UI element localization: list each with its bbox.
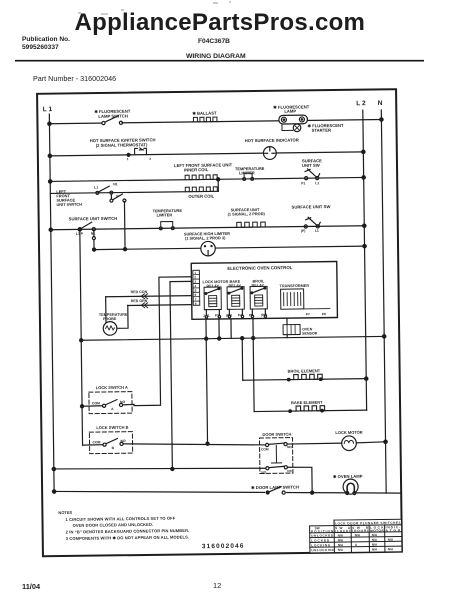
junction mid rung at drop 206: [205, 337, 208, 340]
svg-text:COM: COM: [261, 447, 269, 451]
coil ballast: [192, 111, 218, 122]
svg-text:(1 SIGNAL, 2 PROD 3): (1 SIGNAL, 2 PROD 3): [185, 235, 226, 241]
svg-text:INNER COIL: INNER COIL: [184, 167, 209, 172]
wire broil rung: [243, 379, 366, 381]
wire EOC drop pin3: [218, 319, 220, 338]
svg-text:(P3): (P3): [226, 313, 232, 317]
svg-text:NO: NO: [120, 400, 125, 404]
junction L1 lower rung: [52, 467, 55, 470]
svg-text:✱ DOOR LAMP SWITCH: ✱ DOOR LAMP SWITCH: [251, 485, 299, 491]
switch surface unit switch left: [69, 216, 118, 236]
svg-text:BAKE ELEMENT: BAKE ELEMENT: [291, 400, 323, 405]
svg-text:SURFACE UNIT SWITCH: SURFACE UNIT SWITCH: [69, 216, 118, 222]
wire probe right leg: [117, 305, 128, 328]
svg-text:(DOOR): (DOOR): [352, 529, 368, 533]
wire branch up to rung3: [217, 179, 219, 191]
svg-text:HOT SURFACE INDICATOR: HOT SURFACE INDICATOR: [245, 137, 299, 143]
svg-text:(1 SIGNAL, 2 PROD): (1 SIGNAL, 2 PROD): [228, 211, 266, 216]
svg-text:WIRING DIAGRAM: WIRING DIAGRAM: [186, 53, 246, 60]
svg-text:12: 12: [213, 581, 221, 590]
svg-text:P8: P8: [322, 312, 326, 316]
junction lock motor at L2: [384, 440, 387, 443]
wire L2 rail: [363, 110, 367, 410]
switch fluorescent lamp switch: [94, 109, 131, 125]
svg-text:COM: COM: [92, 401, 100, 405]
heater broil element: [288, 368, 324, 379]
node N label: [378, 100, 383, 107]
header rule: [15, 60, 424, 62]
wire EOC drop to door rung: [206, 319, 208, 443]
junction broil rung at L2: [365, 377, 368, 380]
svg-text:SENSOR: SENSOR: [302, 331, 318, 335]
junction pin3 drop: [218, 337, 221, 340]
node L1 label: [43, 106, 53, 113]
table lock door plunger switch states: [310, 519, 402, 553]
svg-text:L1: L1: [315, 181, 319, 185]
svg-text:L1: L1: [315, 229, 319, 233]
wire EOC pin to vertical drop B: [170, 281, 194, 469]
lamp fluorescent lamp fixture: [273, 104, 310, 130]
lamp surface high limiter indicator: [184, 231, 231, 256]
svg-text:NOTES: NOTES: [58, 510, 72, 515]
svg-text:Publication No.: Publication No.: [22, 36, 70, 43]
svg-text:316002046: 316002046: [202, 543, 245, 551]
svg-text:LOCKING: LOCKING: [311, 543, 331, 547]
switch door switch: [259, 432, 293, 475]
wire broil feeder drop: [241, 338, 244, 380]
resistor temperature probe: [99, 313, 128, 336]
junction mid rung at drop 253: [252, 336, 255, 339]
svg-text:N/A: N/A: [372, 538, 378, 542]
wire EOC drop pin4: [230, 319, 232, 338]
heater bake element: [291, 400, 326, 411]
svg-text:N/A: N/A: [388, 547, 394, 551]
svg-text:LOCK MOTOR: LOCK MOTOR: [335, 430, 362, 435]
svg-text:N/A: N/A: [338, 533, 344, 537]
junction mid rung at drop 241: [241, 337, 244, 340]
relay K2 bake relay: [225, 280, 244, 318]
svg-text:N1: N1: [113, 182, 117, 186]
svg-text:UNIT SW: UNIT SW: [302, 163, 320, 168]
thermal limiter rung3: [235, 166, 265, 181]
svg-text:N/A: N/A: [372, 543, 378, 547]
svg-text:LAMP: LAMP: [284, 109, 296, 114]
wire probe left leg: [105, 297, 107, 322]
svg-text:RELAY: RELAY: [207, 284, 220, 288]
wire rung 1: [49, 120, 381, 124]
svg-text:LOCK SWITCH B: LOCK SWITCH B: [96, 425, 128, 430]
svg-text:RELAY: RELAY: [252, 284, 265, 288]
svg-text:DOOR SWITCH: DOOR SWITCH: [262, 432, 291, 437]
junction drop B at lower rung: [171, 467, 174, 470]
svg-text:(P): (P): [301, 229, 306, 233]
wire EOC pin to vertical drop A: [159, 277, 193, 404]
coil left front surface unit inner coil: [174, 162, 233, 180]
svg-text:LIMITER: LIMITER: [239, 170, 255, 175]
switch surface unit switch right: [292, 204, 331, 233]
wire rung 3: [50, 177, 363, 181]
wire EOC probe lead green: [128, 298, 192, 308]
node L2 label: [356, 100, 366, 107]
junction EOC drop at door rung: [206, 442, 209, 445]
wire left feeder vertical: [80, 229, 83, 445]
junction feeder at mid rung: [80, 339, 83, 342]
relay K3 broil relay: [248, 279, 267, 317]
junction broil element terminals: [287, 378, 322, 381]
switch door lamp switch: [251, 485, 299, 496]
wire rung 5: [51, 226, 364, 230]
svg-text:N/A: N/A: [338, 548, 344, 552]
wire bake feeder drop: [253, 319, 254, 412]
heater surface unit element: [228, 207, 267, 228]
svg-text:N/A: N/A: [388, 538, 394, 542]
part number stamp: [202, 543, 245, 551]
svg-text:RED CON: RED CON: [131, 290, 148, 294]
svg-text:NO: NO: [287, 445, 292, 449]
faint scan specks top edge: [78, 1, 231, 15]
lamp fluorescent starter: [293, 123, 344, 133]
junction L1 rung2: [48, 154, 51, 157]
junction L2 rung3: [362, 176, 365, 179]
svg-text:NC: NC: [287, 469, 292, 473]
switch lock switch A: [82, 385, 134, 414]
wire bottom lamp rung: [54, 487, 401, 498]
svg-text:J-P1: J-P1: [203, 314, 210, 318]
svg-text:STARTER: STARTER: [312, 128, 332, 133]
svg-text:N/A: N/A: [338, 543, 344, 547]
wire door switch NC to lamp rung: [287, 467, 312, 493]
junction L2 rung5: [363, 224, 366, 227]
wire L1 rail: [49, 114, 54, 493]
svg-text:NO: NO: [120, 439, 125, 443]
wire lock switch A NO lead: [134, 404, 160, 406]
svg-text:P2: P2: [215, 314, 219, 318]
notes block: [58, 508, 189, 541]
wire drop from switch N terminal to rung6: [123, 202, 126, 250]
svg-text:UNLOCKING: UNLOCKING: [311, 548, 335, 552]
junction feeder at lock A: [80, 405, 83, 408]
svg-text:✱ BALLAST: ✱ BALLAST: [192, 111, 217, 116]
svg-text:N/A: N/A: [372, 547, 378, 551]
junction mid rung N: [382, 335, 385, 338]
wire N rail: [381, 110, 386, 493]
svg-text:P7: P7: [306, 312, 310, 316]
switch right rear surface unit switch: [301, 158, 323, 185]
junction rung6 second drop: [123, 248, 126, 251]
junction NC drop on lamp rung: [311, 491, 314, 494]
junction L1 rung5: [49, 228, 52, 231]
thermal limiter rung5: [153, 208, 183, 230]
connector strip P1-P8: [193, 270, 200, 305]
svg-text:LAMP SWITCH: LAMP SWITCH: [98, 113, 128, 118]
svg-text:LOCKED: LOCKED: [311, 538, 330, 542]
wire lower rung from L1: [54, 466, 266, 471]
svg-text:L1: L1: [94, 186, 98, 190]
motor lock motor: [335, 429, 385, 450]
svg-text:LOCK SWITCH A: LOCK SWITCH A: [96, 385, 128, 390]
svg-text:P1: P1: [301, 181, 305, 185]
junction bake element terminals: [289, 409, 324, 412]
wire drop from rung5 switch to rung6: [92, 231, 95, 250]
lamp hot surface indicator: [245, 137, 299, 159]
svg-text:UNIT SWITCH: UNIT SWITCH: [56, 202, 82, 207]
junction L2 rung2: [362, 150, 365, 153]
svg-text:PROBE: PROBE: [103, 317, 117, 321]
svg-text:5995260337: 5995260337: [22, 44, 59, 51]
svg-text:RELAY: RELAY: [229, 284, 242, 288]
transformer T1: [280, 284, 330, 317]
svg-text:BROIL ELEMENT: BROIL ELEMENT: [288, 368, 321, 373]
sensor oven sensor probe: [283, 318, 318, 338]
svg-text:N/A: N/A: [355, 533, 361, 537]
svg-text:RED GRN: RED GRN: [131, 299, 148, 303]
svg-text:UNLOCKED: UNLOCKED: [311, 534, 334, 538]
relay K1 lock motor relay: [202, 280, 229, 318]
svg-text:N/A: N/A: [338, 538, 344, 542]
junction rung6 left drop: [92, 248, 95, 251]
box electronic oven control U1: [191, 262, 337, 320]
switch hot surface igniter switch: [90, 137, 156, 161]
junction L1 rung1: [48, 122, 51, 125]
wire rung 6: [94, 246, 364, 249]
wire bake rung: [254, 410, 366, 411]
junction L1 bottom rung: [52, 490, 55, 493]
svg-text:OUTER COIL: OUTER COIL: [188, 194, 214, 199]
wire door switch to lock motor: [287, 442, 342, 445]
svg-text:P4: P4: [238, 313, 242, 317]
svg-text:AppliancePartsPros.com: AppliancePartsPros.com: [75, 9, 366, 36]
lamp oven lamp: [333, 474, 363, 495]
svg-text:ELECTRONIC OVEN CONTROL: ELECTRONIC OVEN CONTROL: [227, 265, 293, 271]
coil left front surface unit outer coil: [185, 187, 217, 199]
svg-text:L 2: L 2: [356, 100, 366, 107]
svg-text:N: N: [378, 100, 383, 107]
svg-text:11/04: 11/04: [22, 582, 41, 591]
svg-text:NO: NO: [261, 470, 266, 474]
wire rung 4 outer coil branch: [50, 191, 218, 193]
svg-text:P5: P5: [249, 313, 253, 317]
svg-text:(P6): (P6): [261, 313, 267, 317]
junction feeder at rung5: [78, 228, 81, 231]
wire EOC probe lead red: [106, 289, 192, 299]
junction L1 rung3: [48, 180, 51, 183]
svg-text:TRANSFORMER: TRANSFORMER: [280, 284, 310, 288]
svg-text:✱ OVEN LAMP: ✱ OVEN LAMP: [333, 474, 363, 479]
switch left front surface unit switch: [56, 182, 126, 207]
svg-text:OVEN DOOR CLOSED AND UNLOCKED.: OVEN DOOR CLOSED AND UNLOCKED.: [73, 522, 154, 528]
junction N rung1: [380, 118, 383, 121]
svg-text:N/A: N/A: [372, 533, 378, 537]
diagram border frame: [37, 89, 402, 556]
wire long mid rung: [81, 336, 384, 340]
switch lock switch B: [82, 423, 265, 454]
svg-text:LIMITER: LIMITER: [157, 212, 173, 217]
svg-text:MOTOR: MOTOR: [370, 529, 384, 533]
svg-text:COM: COM: [92, 440, 100, 444]
svg-text:F04C367B: F04C367B: [198, 38, 230, 45]
svg-text:SURFACE UNIT SW: SURFACE UNIT SW: [292, 204, 331, 209]
svg-text:(2 SIGNAL THERMOSTAT): (2 SIGNAL THERMOSTAT): [96, 142, 148, 148]
wire rung 2: [50, 152, 363, 156]
junction L2 rung6: [363, 244, 366, 247]
junction rung3 branch: [217, 178, 220, 181]
svg-text:Part Number - 316002046: Part Number - 316002046: [33, 74, 116, 83]
svg-text:N1: N1: [91, 232, 95, 236]
svg-text:L 1: L 1: [43, 106, 53, 113]
